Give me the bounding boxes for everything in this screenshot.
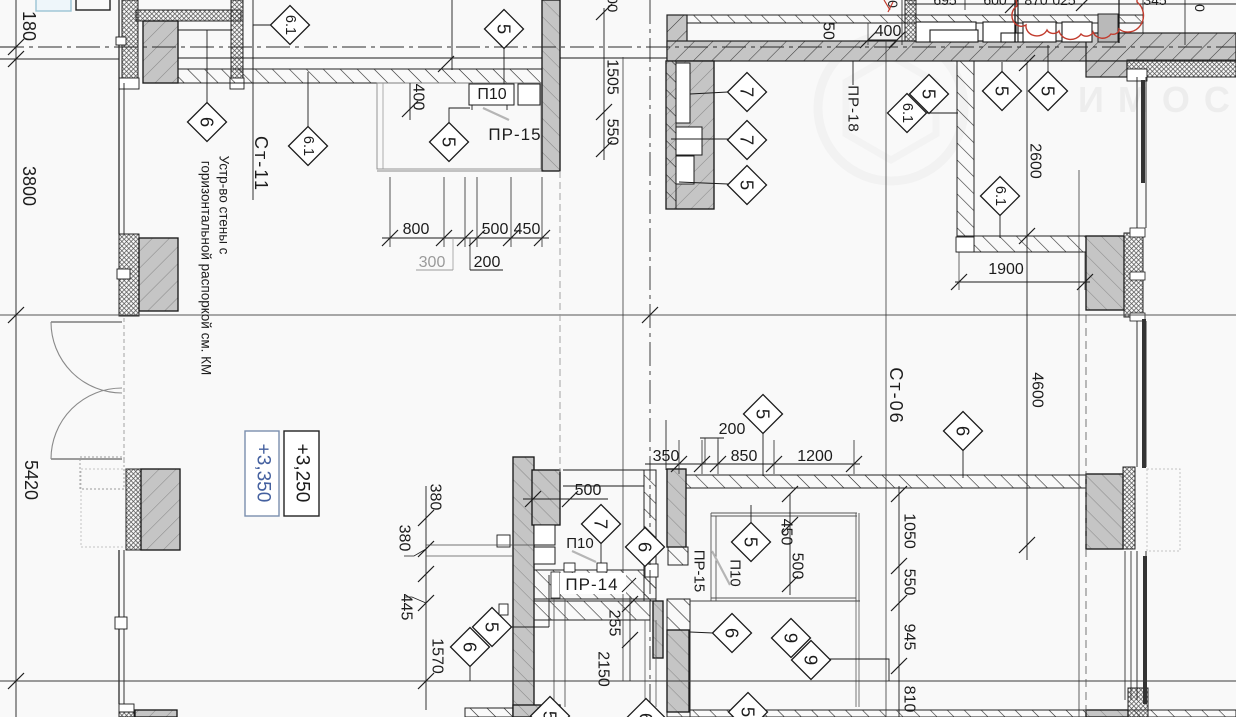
lintel box П10 left	[564, 563, 575, 572]
dim line 200 upper	[700, 437, 724, 439]
svg-text:+3,350: +3,350	[253, 444, 274, 503]
svg-text:5: 5	[439, 137, 460, 147]
corridor wall line x666 short	[665, 420, 667, 470]
bathroom south band leaf2	[534, 601, 650, 620]
bottom band segment at column	[465, 708, 513, 717]
tick at axis y681	[8, 673, 24, 689]
svg-text:380: 380	[396, 525, 413, 552]
lintel box row 2 inner	[1001, 33, 1030, 42]
lintel box east wall	[644, 564, 658, 577]
leader 6.1 top-left	[253, 25, 271, 68]
bathroom west wall	[532, 470, 560, 525]
dim line y238	[382, 237, 549, 239]
room2 left wall line	[710, 513, 712, 601]
shaft hatched strip	[666, 61, 676, 209]
svg-text:П10: П10	[477, 86, 506, 103]
dim line 400 top right	[868, 39, 897, 41]
window frame mark3	[1130, 313, 1145, 321]
bathroom east wall strip	[644, 470, 656, 601]
svg-text:500: 500	[482, 221, 509, 238]
cut dim line y4	[908, 3, 1236, 5]
svg-text:345: 345	[1143, 0, 1167, 8]
svg-text:870: 870	[1024, 0, 1048, 8]
leader 6.1 right	[925, 112, 958, 114]
svg-text:450: 450	[514, 221, 541, 238]
window line right bottom	[1136, 551, 1138, 700]
leader 6 x207	[206, 30, 208, 103]
leader 6.1 x308	[307, 72, 309, 126]
room outline inner x383	[382, 83, 384, 169]
room2 right line2	[858, 513, 860, 601]
callout 5	[485, 10, 524, 49]
dim line 255	[629, 596, 631, 681]
dim line x604	[603, 8, 605, 160]
leader 6.1 room	[999, 214, 1001, 238]
window frame mark2	[1130, 272, 1145, 280]
insulation strip top-left x124	[122, 0, 138, 81]
svg-text:4600: 4600	[1029, 372, 1046, 408]
room outline double bottom	[377, 170, 541, 172]
insulation right lower	[1123, 467, 1135, 549]
window mullion mark upper	[116, 37, 126, 45]
svg-text:025: 025	[1052, 0, 1076, 8]
witness line x253 (Ст-11)	[252, 0, 254, 200]
hatched wall band y69-83	[178, 69, 560, 83]
tick at x446 y64	[438, 56, 454, 72]
leader hook 380b	[404, 549, 426, 556]
white box strip bottom	[956, 237, 974, 252]
svg-text:2600: 2600	[1027, 143, 1044, 179]
leader 6 bottom	[469, 666, 471, 681]
leader 5 column	[511, 626, 549, 628]
callout 5	[531, 697, 570, 717]
leader 5 column vertical	[548, 575, 550, 627]
dim line x899	[898, 486, 900, 717]
svg-text:5: 5	[753, 409, 774, 419]
insulation band horizontal y10-21	[136, 10, 241, 21]
insulation pier bottom right	[1128, 688, 1148, 717]
leader 5 bath	[750, 505, 752, 523]
dashed rect below door	[80, 457, 124, 489]
leader 5 b	[1047, 45, 1049, 72]
svg-text:5: 5	[738, 707, 759, 717]
line x656 below bath wall	[655, 620, 657, 707]
axis stub y59	[0, 58, 16, 60]
label ПР-14	[560, 573, 626, 594]
svg-text:255: 255	[606, 610, 623, 637]
axis stub y47	[0, 46, 16, 48]
dim line 1900	[955, 281, 1090, 283]
room2 left wall line2	[715, 516, 717, 601]
callout 5	[473, 608, 512, 647]
svg-text:50: 50	[820, 22, 837, 40]
niche box 1 west wall	[534, 525, 555, 545]
insulation bit bottom-left	[119, 712, 134, 717]
svg-text:6: 6	[636, 713, 657, 717]
small square mark 1	[497, 535, 510, 547]
callout 6	[944, 412, 983, 451]
svg-text:5: 5	[540, 711, 561, 717]
svg-text:550: 550	[604, 119, 621, 146]
axis B horizontal y47	[0, 46, 1236, 48]
dotted balcony rect left	[81, 469, 137, 547]
lintel diagonal П10 top	[483, 108, 509, 120]
leader 6 bath	[644, 566, 646, 577]
tick on axis y315 at x650	[642, 307, 658, 323]
tick at axis y47	[8, 39, 24, 55]
door leaf bottom	[51, 458, 122, 460]
svg-text:5: 5	[992, 86, 1013, 96]
witness x1085	[1084, 252, 1086, 290]
left wall line x119 lower	[118, 550, 120, 704]
underline 200	[470, 269, 503, 271]
pier below band (ПР-15 side)	[667, 469, 686, 547]
red mark top	[884, 0, 893, 12]
witness top x965	[964, 0, 966, 10]
insulation pier lower-left	[126, 469, 141, 550]
svg-text:Ст-06: Ст-06	[886, 367, 906, 424]
lintel diagonal П10 bath	[572, 551, 596, 562]
lintel box П10 right	[597, 563, 607, 572]
svg-text:850: 850	[731, 448, 758, 465]
dim line x426	[425, 486, 427, 710]
door leaf top	[51, 321, 122, 323]
window dark bar top right	[1141, 80, 1145, 183]
svg-text:П10: П10	[566, 535, 593, 552]
lintel box row 3	[1023, 22, 1056, 42]
window line right bottom2	[1145, 551, 1147, 700]
callout 5	[729, 693, 768, 717]
svg-text:9: 9	[781, 633, 802, 643]
window line right top2	[1145, 77, 1147, 228]
svg-text:5: 5	[741, 537, 762, 547]
witness line x452	[451, 0, 453, 70]
callout 6.1	[271, 6, 310, 45]
pier hatch extension below	[668, 547, 688, 565]
svg-text:450: 450	[778, 519, 795, 546]
insulation pier mid-left	[119, 234, 139, 316]
witness top x1143	[1142, 0, 1144, 33]
callout 5	[728, 166, 767, 205]
window line right mid2	[1145, 321, 1147, 467]
svg-text:6: 6	[953, 426, 974, 436]
svg-text:1900: 1900	[988, 261, 1024, 278]
svg-text:550: 550	[901, 569, 918, 596]
callout 7	[728, 73, 767, 112]
wall top edge y58	[178, 57, 667, 59]
dark jamb line x1018	[1017, 0, 1019, 42]
dotted balcony rect right	[1147, 469, 1180, 551]
dim line x790	[789, 494, 791, 595]
tick at axis y315	[8, 307, 24, 323]
callout 5	[732, 523, 771, 562]
central wall x542-560 top	[542, 0, 560, 171]
leader hook 445	[404, 597, 426, 603]
watermark hexagon	[846, 56, 936, 160]
wall line y30	[178, 29, 232, 31]
dim line y464	[645, 463, 860, 465]
dim line 400 x410	[409, 83, 411, 120]
leader 6 lower corridor	[690, 632, 713, 633]
callout 5	[910, 75, 949, 114]
axis vertical x886 (Ст-06)	[885, 40, 887, 717]
door swing arc bottom	[51, 388, 122, 459]
svg-text:0: 0	[885, 0, 901, 8]
white box at insulation start	[1127, 69, 1147, 81]
cut blue box top-left	[36, 0, 71, 11]
axis y315	[0, 314, 1236, 316]
callout 9	[792, 641, 831, 680]
gray pier bottom-left	[135, 710, 177, 717]
leader ПР-18	[852, 61, 854, 85]
thin hatched band y15-23	[687, 15, 1143, 23]
axis vertical x650	[649, 0, 651, 717]
svg-text:350: 350	[653, 448, 680, 465]
svg-text:9: 9	[801, 655, 822, 665]
witness x959	[958, 252, 960, 290]
band line y41	[687, 40, 1085, 42]
svg-text:ПР-18: ПР-18	[845, 85, 862, 132]
room2 bottom line y598	[711, 597, 856, 599]
witness top x1185	[1184, 0, 1186, 45]
shaft duct opening 2	[676, 127, 702, 155]
svg-text:7: 7	[737, 135, 758, 145]
callout 7	[728, 121, 767, 160]
shaft duct opening 3	[676, 156, 694, 184]
gray block bottom band 2	[513, 705, 560, 717]
band line y23	[687, 22, 1143, 24]
svg-text:445: 445	[398, 594, 415, 621]
insulation strip x905 top	[905, 0, 916, 41]
callout 6	[713, 614, 752, 653]
leader 7 lower	[671, 138, 728, 140]
left wall inner line x124 upper	[123, 83, 125, 234]
svg-text:300: 300	[419, 254, 446, 271]
duct slot in south band	[551, 572, 560, 598]
gray strip east of bath	[653, 601, 663, 658]
window mullion mark lower	[115, 617, 127, 629]
window line right top	[1136, 77, 1138, 228]
left wall line x124 lower	[123, 550, 125, 704]
main wall band y41-61	[667, 41, 1236, 61]
callout 7	[582, 505, 621, 544]
door plane dashed x124	[123, 318, 125, 462]
elevation box +3,250	[284, 431, 319, 516]
svg-text:00: 00	[604, 0, 621, 12]
leader 6 room	[962, 450, 964, 478]
svg-text:800: 800	[403, 221, 430, 238]
svg-text:180: 180	[19, 11, 39, 41]
svg-text:5: 5	[919, 89, 940, 99]
svg-text:Устр-во стены с: Устр-во стены с	[217, 156, 232, 255]
junction box bottom-left wall	[119, 704, 134, 712]
left dimension line x16	[15, 0, 17, 717]
svg-text:7: 7	[737, 87, 758, 97]
svg-text:380: 380	[427, 484, 444, 511]
dim line 500 bath	[523, 498, 608, 500]
dashed line x1086	[1085, 315, 1087, 717]
svg-text:5: 5	[1038, 86, 1059, 96]
concrete pier top-left	[143, 21, 178, 83]
cut black box top-left	[76, 0, 110, 10]
bathroom top wall line y470	[563, 469, 644, 471]
window line right mid	[1136, 321, 1138, 467]
svg-text:200: 200	[719, 421, 746, 438]
svg-text:горизонтальной распоркой см. К: горизонтальной распоркой см. КМ	[199, 161, 214, 375]
tick top	[1005, 0, 1021, 13]
line x1079	[1078, 170, 1080, 717]
bathroom top wall line y486	[563, 485, 644, 487]
axis bottom y681	[0, 680, 1236, 682]
callout 6.1	[888, 94, 927, 133]
leader 9 pair	[829, 659, 889, 681]
tick at axis y59	[8, 51, 24, 67]
svg-text:6: 6	[722, 628, 743, 638]
underline 300	[416, 269, 453, 271]
watermark ring	[818, 35, 964, 181]
window dark bar bottom right	[1143, 556, 1147, 704]
svg-text:5420: 5420	[21, 460, 41, 500]
witness x902	[901, 0, 903, 45]
svg-text:ИМОСТЬ: ИМОСТЬ	[1078, 79, 1236, 120]
concrete block right mid	[1086, 236, 1124, 310]
svg-text:6.1: 6.1	[992, 186, 1008, 206]
svg-text:5: 5	[737, 180, 758, 190]
witness x868	[867, 23, 869, 45]
lintel box row 2	[983, 22, 1016, 42]
svg-text:П10: П10	[727, 559, 744, 586]
central column bottom	[513, 457, 534, 717]
window frame mark	[1130, 228, 1145, 237]
svg-text:ПР-15: ПР-15	[488, 125, 541, 144]
wall strip right of corridor	[667, 599, 690, 717]
leader 7 bath	[600, 543, 602, 563]
extension y556 to wall	[426, 555, 513, 557]
callout 6	[627, 699, 666, 717]
small square mark 2	[499, 604, 508, 615]
window line x1131 bottom	[1130, 551, 1132, 700]
lintel box right of П10	[518, 84, 540, 105]
callout 6	[451, 628, 490, 667]
niche box 2 west wall	[534, 547, 555, 564]
svg-text:200: 200	[474, 254, 501, 271]
callout 5	[744, 395, 783, 434]
leader 5 a	[1001, 62, 1003, 72]
svg-text:6.1: 6.1	[300, 136, 316, 156]
corridor line y601	[690, 600, 860, 602]
callout 9	[772, 619, 811, 658]
window dark bar mid right	[1142, 319, 1146, 468]
gray block above band	[1098, 14, 1118, 42]
concrete block right lower	[1086, 474, 1123, 549]
leader 300	[452, 238, 454, 270]
bottom wall band right part	[690, 710, 1236, 717]
svg-text:ПР-15: ПР-15	[691, 550, 708, 592]
svg-text:Ст-11: Ст-11	[251, 136, 271, 192]
svg-text:+3,250: +3,250	[292, 444, 313, 503]
leader 7 upper	[690, 92, 728, 94]
insulation band right y60-77	[1127, 60, 1236, 77]
svg-text:6.1: 6.1	[899, 103, 915, 123]
leader 5 shaft	[679, 182, 728, 184]
thick wall band right y33-61	[1086, 33, 1236, 61]
tick after ПР-14	[622, 578, 636, 592]
room outline upper center	[377, 83, 541, 169]
corridor line x623	[622, 57, 624, 681]
dashed wall face x560	[559, 171, 561, 472]
svg-text:0: 0	[1192, 4, 1208, 12]
bathroom south band	[534, 570, 656, 599]
callout 5	[1029, 72, 1068, 111]
duct line x565	[564, 599, 566, 707]
concrete corner x667 top	[667, 15, 687, 61]
extension y545 to wall	[426, 544, 534, 546]
dark jamb line x1015	[1014, 0, 1016, 42]
insulation right mid	[1124, 233, 1143, 317]
axis offset line y59	[0, 58, 119, 60]
svg-text:500: 500	[575, 482, 602, 499]
svg-text:2150: 2150	[595, 651, 612, 687]
callout 6.1	[981, 177, 1020, 216]
room2 top line	[711, 512, 857, 514]
ventilation shaft block	[666, 61, 714, 209]
concrete block lower right of corridor	[667, 630, 689, 712]
callout 6	[626, 528, 665, 567]
line x859 below room2	[858, 601, 860, 707]
svg-text:400: 400	[410, 84, 427, 111]
svg-text:945: 945	[901, 624, 918, 651]
svg-text:6.1: 6.1	[282, 15, 298, 35]
lintel diagonal П10 bath2	[712, 551, 730, 585]
callout 5	[983, 72, 1022, 111]
shaft duct opening 1	[676, 63, 690, 123]
svg-text:500: 500	[789, 553, 806, 580]
wall band step below	[1086, 61, 1127, 77]
svg-text:5: 5	[482, 622, 503, 632]
callout 6.1	[289, 127, 328, 166]
room2 right line	[855, 513, 857, 601]
lintel box row 4	[1062, 22, 1092, 42]
leader 200	[469, 238, 471, 270]
svg-text:7: 7	[591, 519, 612, 529]
dim line x1027	[1026, 63, 1028, 560]
svg-text:6: 6	[460, 642, 481, 652]
interior wall band y475-488	[667, 475, 1086, 488]
junction box below strip x231	[230, 78, 244, 89]
right room bottom band	[957, 236, 1087, 252]
leader 5 to П10	[449, 108, 470, 122]
elevation box +3,350	[245, 431, 279, 516]
revision cloud red	[1012, 0, 1144, 39]
svg-text:6: 6	[635, 542, 656, 552]
tick top2	[1076, 0, 1092, 11]
room2 top line2	[711, 515, 857, 517]
window line x1125 bottom	[1124, 551, 1126, 700]
gray block bottom band right	[1086, 710, 1128, 717]
callout 6	[188, 103, 227, 142]
svg-text:695: 695	[933, 0, 957, 8]
line x856 below room2	[855, 601, 857, 707]
junction box below strip	[119, 78, 139, 89]
concrete pier mid-left	[139, 238, 178, 311]
right room west wall strip	[957, 61, 974, 251]
svg-text:1570: 1570	[429, 638, 446, 674]
door swing arc top	[51, 322, 122, 393]
svg-text:3800: 3800	[19, 166, 39, 206]
lintel box П10 top	[469, 84, 514, 105]
svg-text:5: 5	[494, 24, 515, 34]
concrete pier lower-left	[141, 469, 180, 550]
